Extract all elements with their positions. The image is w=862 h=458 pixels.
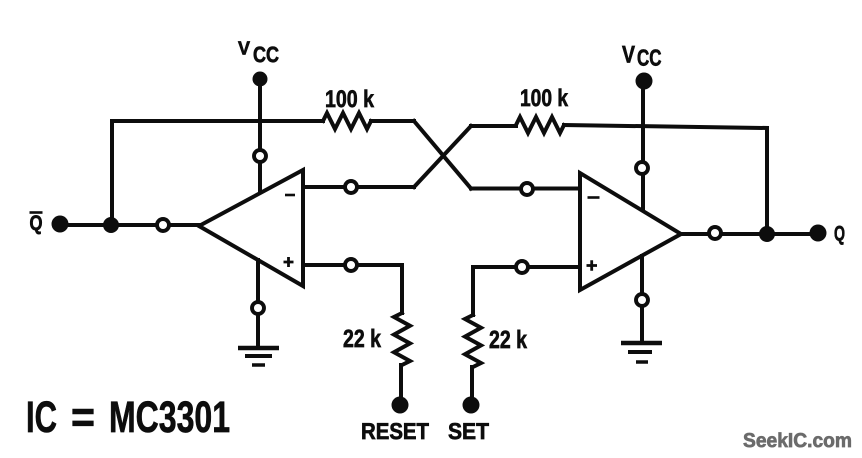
connection circle: right ground pin	[636, 294, 648, 306]
junction dot: Q-bar / feedback rail	[103, 217, 119, 233]
ground symbol (left)	[238, 348, 279, 365]
wire: into left op-amp inverting input	[303, 185, 414, 189]
wire: R2 to right feedback corner	[564, 125, 767, 128]
op-amp U2 (right, pointing right)	[580, 173, 681, 290]
svg-text:IC: IC	[26, 393, 57, 442]
svg-text:SET: SET	[448, 418, 489, 444]
wire: left Vcc down to op-amp top edge	[258, 84, 262, 193]
svg-text:Q: Q	[834, 223, 845, 246]
wire: crossover diagonal B (right rail to left inverting input)	[414, 126, 471, 187]
svg-text:SeekIC.com: SeekIC.com	[743, 430, 852, 452]
wire: top-left horizontal rail	[112, 119, 323, 123]
svg-text:100 k: 100 k	[325, 86, 375, 113]
terminal dot: Q	[810, 225, 827, 242]
connection circle: left inverting input	[345, 181, 357, 193]
label Q-bar	[30, 212, 43, 235]
svg-text:CC: CC	[253, 42, 279, 67]
wire: right non-inverting input to SET resistor	[473, 267, 580, 315]
op-amp U1 (left, pointing left)	[199, 170, 303, 286]
resistor R3 22k (RESET, vertical)	[394, 313, 410, 365]
wire: feedback vertical down to output node	[765, 128, 769, 234]
connection circle: right op-amp power pin	[636, 162, 648, 174]
resistor R2 100k (right, horizontal)	[516, 117, 564, 133]
svg-text:22 k: 22 k	[489, 326, 527, 354]
connection circle: right op-amp output	[709, 227, 721, 239]
terminal dot: SET	[463, 397, 480, 414]
svg-text:Q: Q	[30, 212, 43, 235]
svg-text:CC: CC	[637, 45, 662, 71]
resistor R1 100k (left, horizontal)	[323, 113, 371, 129]
wire: R1 to crossover	[371, 119, 414, 123]
wire: Q output rail	[681, 232, 818, 236]
junction dot: output / feedback	[759, 226, 775, 242]
ground symbol (right)	[621, 343, 662, 362]
wire: R4 to SET terminal	[470, 367, 474, 397]
Vcc terminal dot (right)	[636, 73, 653, 90]
connection circle: left op-amp output	[157, 219, 169, 231]
wire: left op-amp ground pin down	[256, 260, 260, 348]
terminal dot: Q-bar	[52, 216, 69, 233]
Vcc terminal dot (left)	[253, 72, 268, 87]
svg-text:RESET: RESET	[361, 418, 429, 444]
connection circle: left non-inverting input	[345, 259, 357, 271]
terminal dot: RESET	[392, 397, 409, 414]
svg-text:V: V	[238, 39, 250, 60]
wire: right Vcc down to op-amp top edge	[641, 88, 645, 210]
wire: left vertical rail down to Q-bar node	[110, 121, 114, 225]
connection circle: left op-amp power pin	[254, 150, 266, 162]
connection circle: left ground pin	[252, 302, 264, 314]
wire: crossover diagonal A (left rail to right inverting input)	[414, 121, 471, 189]
wire: right rail to R2	[471, 124, 516, 128]
wire: left non-inverting input to RESET resistor	[303, 265, 402, 313]
wire: Q-bar output rail	[61, 223, 199, 227]
svg-text:=: =	[71, 393, 95, 442]
Vcc label (left)	[238, 39, 279, 68]
wire: into right op-amp inverting input	[471, 187, 580, 191]
connection circle: right inverting input	[521, 183, 533, 195]
svg-text:MC3301: MC3301	[109, 393, 230, 442]
wire: R3 to RESET terminal	[399, 365, 403, 397]
resistor R4 22k (SET, vertical)	[465, 315, 481, 367]
connection circle: right non-inverting input	[516, 261, 528, 273]
svg-text:V: V	[622, 42, 635, 69]
svg-text:22 k: 22 k	[343, 325, 381, 353]
Vcc label (right)	[622, 42, 662, 71]
wire: right op-amp ground pin down	[640, 256, 644, 343]
svg-text:100 k: 100 k	[520, 85, 569, 112]
